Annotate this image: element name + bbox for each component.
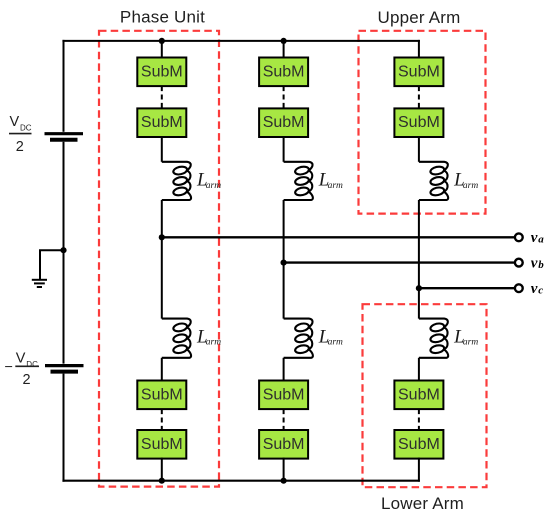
svg-text:v: v <box>531 256 538 272</box>
svg-text:2: 2 <box>16 139 24 155</box>
junction bottom bus phase B <box>281 478 287 484</box>
junction ground tap node <box>60 247 66 253</box>
node label va <box>531 230 545 246</box>
node label vb <box>531 256 545 272</box>
wire phase B bottom drop <box>283 458 285 482</box>
wire output vc <box>419 287 515 289</box>
inductor L_arm upper B <box>284 162 313 200</box>
wire phase C lower arm link <box>418 358 420 381</box>
svg-text:arm: arm <box>328 338 343 348</box>
svg-text:SubM: SubM <box>141 114 183 131</box>
wire output vb <box>284 261 515 263</box>
wire bottom DC bus <box>62 480 420 482</box>
wire phase C bottom drop <box>418 458 420 482</box>
svg-text:arm: arm <box>206 338 221 348</box>
svg-text:Phase Unit: Phase Unit <box>120 8 205 27</box>
wire phase B top drop <box>283 40 285 59</box>
SubM module C2 <box>394 108 443 137</box>
wire phase A top drop <box>161 40 163 59</box>
wire phase C mid <box>418 200 420 319</box>
svg-text:SubM: SubM <box>398 436 440 453</box>
SubM module A4 <box>137 430 186 459</box>
svg-text:SubM: SubM <box>263 114 305 131</box>
wire phase A mid <box>161 200 163 319</box>
SubM module B1 <box>259 58 308 87</box>
terminal vc <box>515 284 523 292</box>
terminal va <box>515 233 523 241</box>
svg-text:arm: arm <box>463 181 478 191</box>
svg-text:SubM: SubM <box>398 63 440 80</box>
region box Upper Arm <box>359 31 486 214</box>
node label vc <box>531 281 544 297</box>
wire phase B mid <box>283 200 285 319</box>
wire dashed link phase C lower <box>418 409 420 430</box>
svg-text:SubM: SubM <box>141 436 183 453</box>
wire output va <box>162 236 515 238</box>
svg-text:arm: arm <box>206 181 221 191</box>
wire phase A bottom drop <box>161 458 163 482</box>
value label -V_DC/2 lower <box>5 351 40 389</box>
svg-text:DC: DC <box>26 360 38 369</box>
inductor L_arm lower C <box>419 319 448 358</box>
svg-text:Lower Arm: Lower Arm <box>381 494 464 513</box>
SubM module B4 <box>259 430 308 459</box>
junction phase C output tap <box>416 285 422 291</box>
svg-text:SubM: SubM <box>263 436 305 453</box>
wire dashed link phase B upper <box>283 86 285 108</box>
SubM module B2 <box>259 108 308 137</box>
svg-text:V: V <box>16 351 26 367</box>
junction top bus phase B <box>281 38 287 44</box>
wire left rail upper <box>63 40 65 132</box>
value label L_arm upper A <box>196 170 221 191</box>
svg-text:SubM: SubM <box>263 63 305 80</box>
svg-text:arm: arm <box>463 338 478 348</box>
wire dashed link phase C upper <box>418 86 420 108</box>
svg-text:SubM: SubM <box>141 63 183 80</box>
inductor L_arm lower A <box>162 319 191 358</box>
svg-text:2: 2 <box>23 372 31 388</box>
inductor L_arm upper C <box>419 162 448 200</box>
inductor L_arm upper A <box>162 162 191 200</box>
SubM module A3 <box>137 381 186 410</box>
wire phase B lower arm link <box>283 358 285 381</box>
value label L_arm lower C <box>453 326 478 347</box>
source V1 V_DC/2 upper battery <box>45 134 84 140</box>
svg-text:c: c <box>538 285 543 297</box>
value label L_arm upper B <box>318 170 343 191</box>
svg-text:SubM: SubM <box>263 386 305 403</box>
wire top DC bus <box>62 40 420 42</box>
svg-text:b: b <box>538 259 544 271</box>
svg-text:DC: DC <box>20 124 32 133</box>
wire phase C upper arm link <box>418 137 420 162</box>
svg-text:V: V <box>10 114 20 130</box>
wire ground branch <box>40 250 64 279</box>
wire phase A lower arm link <box>161 358 163 381</box>
SubM module C3 <box>394 381 443 410</box>
svg-text:a: a <box>538 234 544 246</box>
terminal vb <box>515 259 523 267</box>
wire dashed link phase A upper <box>161 86 163 108</box>
wire phase B upper arm link <box>283 137 285 162</box>
wire dashed link phase B lower <box>283 409 285 430</box>
SubM module C4 <box>394 430 443 459</box>
wire left rail lower <box>63 374 65 482</box>
svg-text:−: − <box>5 360 13 376</box>
svg-text:Upper Arm: Upper Arm <box>377 8 460 27</box>
svg-text:SubM: SubM <box>141 386 183 403</box>
region box Lower Arm <box>363 304 487 487</box>
svg-text:SubM: SubM <box>398 386 440 403</box>
ground symbol <box>32 280 47 287</box>
svg-text:v: v <box>531 281 538 297</box>
region box Phase Unit <box>99 31 219 487</box>
wire phase C top drop <box>418 40 420 59</box>
value label V_DC/2 upper <box>9 114 32 155</box>
SubM module C1 <box>394 58 443 87</box>
value label L_arm lower B <box>318 326 343 347</box>
svg-text:arm: arm <box>328 181 343 191</box>
wire phase A upper arm link <box>161 137 163 162</box>
wire left rail middle <box>63 142 65 364</box>
svg-text:v: v <box>531 230 538 246</box>
wire dashed link phase A lower <box>161 409 163 430</box>
svg-text:SubM: SubM <box>398 114 440 131</box>
value label L_arm upper C <box>453 170 478 191</box>
value label L_arm lower A <box>196 326 221 347</box>
source V2 -V_DC/2 lower battery <box>45 366 84 372</box>
inductor L_arm lower B <box>284 319 313 358</box>
SubM module A1 <box>137 58 186 87</box>
junction phase B output tap <box>281 260 287 266</box>
SubM module B3 <box>259 381 308 410</box>
junction top bus phase A <box>159 38 165 44</box>
junction phase A output tap <box>159 234 165 240</box>
SubM module A2 <box>137 108 186 137</box>
junction bottom bus phase A <box>159 478 165 484</box>
